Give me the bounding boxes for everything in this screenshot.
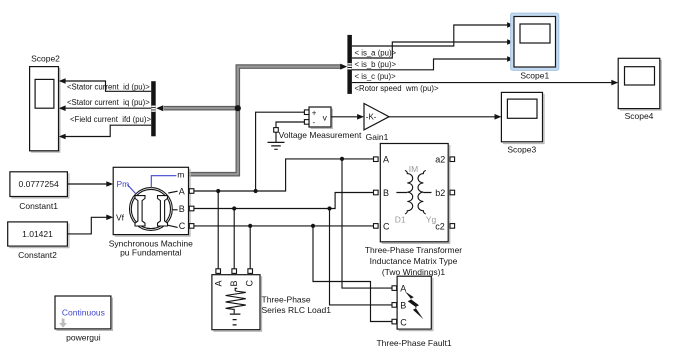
machine icon left I-beam [135,196,145,226]
svg-text:C: C [400,317,407,327]
port square machine C [189,224,194,229]
svg-text:B: B [229,280,239,286]
wire bus1 out1 to Scope2 in1 [59,78,152,91]
svg-text:Series RLC Load1: Series RLC Load1 [262,305,332,315]
svg-text:< is_a (pu)>: < is_a (pu)> [355,48,397,57]
constant Constant2 [8,222,69,260]
scope Scope3 [501,92,544,154]
bus wire from machine m port [189,64,348,175]
svg-text:Vf: Vf [116,213,125,223]
svg-text:Continuous: Continuous [62,308,105,318]
svg-text:Three-Phase: Three-Phase [262,294,311,304]
port square machine B [189,206,194,211]
wire VM output to Gain1 [331,114,364,120]
load port squares top [216,269,221,274]
wire bus2 out4 rotor speed to Scope4 [352,80,618,86]
svg-text:a2: a2 [435,155,445,165]
wire Gain1 to Scope3 [389,114,501,120]
svg-text:c2: c2 [435,222,445,232]
svg-text:powergui: powergui [66,333,101,343]
transformer left winding [405,171,413,214]
svg-text:< is_b (pu)>: < is_b (pu)> [355,60,397,69]
svg-text:C: C [179,221,186,231]
wire B phase branch down to fault B [330,209,393,305]
junction on A wire at VM branch [254,189,258,193]
wire Constant1 to Pm [67,181,113,187]
block Three-Phase Transformer [380,144,449,244]
svg-text:C: C [245,280,255,287]
ground [268,128,285,150]
junction on B wire at fault branch [327,206,331,210]
svg-text:<Stator current iq (pu)>: <Stator current iq (pu)> [67,98,150,107]
port square VM minus [304,120,309,125]
svg-text:0.0777254: 0.0777254 [19,179,59,189]
load RLC icon [226,288,246,325]
svg-text:IM: IM [409,164,418,174]
wire bus2 out1 is_a to Scope1 in1 [352,22,514,46]
wire A phase branch down to load A [217,191,219,269]
svg-text:v: v [323,113,328,123]
fault port squares [392,286,397,291]
fault lightning icon [405,291,424,319]
bus selector BusSelector1 [151,81,156,136]
svg-text:B: B [383,188,389,198]
block Synchronous Machine [113,167,190,236]
wire bus2 out2 is_b to Scope1 in2 [352,39,514,58]
bus junction [235,105,241,111]
svg-text:D1: D1 [395,215,406,225]
svg-text:Inductance Matrix Type: Inductance Matrix Type [370,256,458,266]
machine icon circle [130,188,173,231]
wire B phase branch down to load B [233,209,235,269]
svg-text:<Stator current id (pu)>: <Stator current id (pu)> [67,82,150,91]
svg-text:pu Fundamental: pu Fundamental [120,248,182,258]
svg-text:Constant1: Constant1 [19,201,58,211]
wire A phase branch down to fault A [342,159,392,288]
svg-text:-K-: -K- [366,113,377,122]
svg-text:A: A [214,280,224,286]
svg-text:+: + [312,109,317,118]
svg-text:Scope1: Scope1 [520,71,549,81]
svg-text:Scope3: Scope3 [507,144,536,154]
svg-text:<Rotor speed wm (pu)>: <Rotor speed wm (pu)> [355,84,440,93]
svg-text:1.01421: 1.01421 [22,229,53,239]
svg-text:C: C [383,222,390,232]
junction on C wire at fault branch [311,224,315,228]
junction on B wire at load branch [232,206,236,210]
leader A [168,191,177,193]
svg-text:b2: b2 [435,188,445,198]
svg-text:<Field current ifd (pu)>: <Field current ifd (pu)> [70,115,151,124]
transformer port squares left [374,157,379,162]
leader C [168,225,178,227]
scope Scope4 [618,58,661,121]
wire machine B phase to transformer B [194,193,374,209]
wire VM minus to ground [276,122,304,128]
svg-text:Scope4: Scope4 [625,111,654,121]
svg-text:A: A [383,155,389,165]
svg-text:Voltage Measurement: Voltage Measurement [279,130,362,140]
wire machine C phase to transformer C [194,225,374,227]
gain Gain1 [364,104,389,143]
scope Scope1 selected [511,13,559,81]
wire C phase branch down to load C [249,226,251,269]
svg-text:A: A [179,186,185,196]
block Voltage Measurement [279,107,362,140]
constant Constant1 [10,172,69,211]
transformer winding leads [396,192,431,194]
wire A phase branch to Voltage Measurement plus [256,112,305,191]
svg-text:Three-Phase Transformer: Three-Phase Transformer [365,245,462,255]
bus selector BusSelector2 [347,35,352,94]
svg-text:Constant2: Constant2 [18,250,57,260]
svg-text:(Two Windings)1: (Two Windings)1 [382,267,446,277]
leader Pm [127,185,135,194]
port square machine A [189,189,194,194]
scope Scope2 [30,54,61,152]
svg-text:B: B [400,300,406,310]
svg-text:-: - [313,118,316,127]
svg-text:Scope2: Scope2 [31,54,60,64]
svg-text:Three-Phase Fault1: Three-Phase Fault1 [376,338,451,348]
block Three-Phase Fault1 [397,276,433,330]
junction on A wire at load branch [216,189,220,193]
svg-text:B: B [179,204,185,214]
junction on C wire at load branch [248,224,252,228]
machine icon right I-beam [158,196,168,226]
block powergui [55,296,112,343]
wire Constant2 to Vf [67,215,113,234]
leader B [173,209,178,211]
wire bus2 out3 is_c to Scope1 in3 [352,56,514,70]
block Three-Phase Series RLC Load1 [212,275,262,332]
bus branch to BusSelector1 [156,105,238,111]
wire C phase branch down to fault C [313,226,392,322]
svg-text:Gain1: Gain1 [366,132,389,142]
transformer right winding [418,171,426,214]
wire bus1 out3 to Scope2 in3 [59,125,152,139]
junction on A wire at fault branch [340,157,344,161]
wire machine A phase to transformer A [194,159,374,191]
svg-text:Pm: Pm [117,179,130,189]
transformer port squares right [450,157,455,162]
port square VM plus [304,110,309,115]
leader m [151,176,176,188]
svg-text:m: m [177,170,184,180]
svg-text:< is_c (pu)>: < is_c (pu)> [355,72,397,81]
wire bus1 out2 to Scope2 in2 [59,105,152,111]
